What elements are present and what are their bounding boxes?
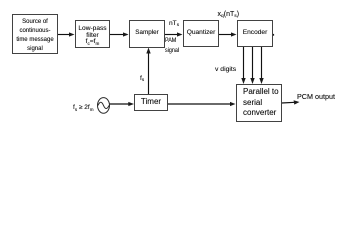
arrowhead into low-pass filter	[69, 32, 75, 36]
arrowhead into parallel-serial converter	[230, 102, 236, 106]
arrowhead down line 3	[259, 78, 263, 84]
label v digits	[215, 66, 236, 73]
block: source of continuous-time message signal	[12, 14, 58, 54]
wire encoder to parallel-serial line 1	[243, 46, 245, 80]
label PCM output	[297, 92, 335, 101]
block: encoder	[237, 20, 273, 47]
wire encoder to parallel-serial line 3	[261, 46, 263, 80]
arrowhead down line 2	[250, 78, 254, 84]
wire oscillator to timer	[110, 103, 131, 105]
arrowhead PCM output	[294, 100, 300, 104]
label PAM signal	[165, 36, 179, 56]
wire source to low-pass filter	[58, 34, 71, 36]
oscillator symbol	[98, 98, 110, 114]
wire quantizer to encoder	[219, 34, 234, 36]
label fs	[140, 75, 144, 82]
arrowhead up into sampler	[146, 48, 150, 54]
arrowhead down line 1	[241, 78, 245, 84]
wire low-pass filter to sampler	[110, 34, 125, 36]
wires and arrows layer	[0, 0, 348, 145]
arrowhead into timer	[128, 102, 134, 106]
block: quantizer	[183, 20, 219, 47]
arrowhead into encoder	[231, 32, 237, 36]
block: low-pass filter	[75, 20, 110, 48]
block: parallel to serial converter	[236, 84, 282, 122]
wire sampler to quantizer	[165, 34, 180, 36]
wire encoder to parallel-serial line 2	[252, 46, 254, 80]
label xq(nTs)	[218, 11, 240, 18]
label nTs	[169, 20, 179, 27]
label fs >= 2fm	[73, 104, 94, 111]
encoder right-edge connector nub	[272, 34, 274, 36]
arrowhead into sampler	[123, 32, 129, 36]
wire parallel-serial to PCM output	[282, 101, 296, 104]
arrowhead into quantizer	[177, 32, 183, 36]
block: sampler	[129, 20, 165, 48]
wire timer to sampler	[148, 52, 150, 94]
wire timer to parallel-serial converter	[168, 103, 231, 105]
block: timer	[134, 94, 168, 111]
